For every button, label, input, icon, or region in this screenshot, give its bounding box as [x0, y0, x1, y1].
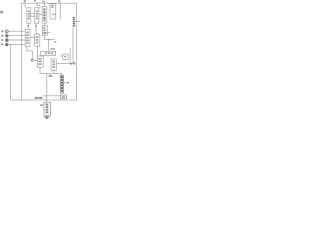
node pin2 label	[1, 35, 3, 37]
label top pin IN	[24, 0, 26, 2]
block E	[25, 30, 30, 47]
ground	[44, 116, 50, 118]
label pin VSET left edge	[0, 11, 3, 14]
block J	[62, 54, 68, 59]
wire I down	[53, 70, 55, 73]
label top pin 2	[34, 0, 36, 2]
wire L right tick	[47, 32, 50, 34]
wire feedback vertical	[72, 27, 74, 64]
terminal pin1	[5, 30, 8, 33]
wire W1 to M	[61, 73, 63, 75]
block A	[27, 8, 31, 23]
node D right dot	[55, 14, 56, 16]
block L	[42, 25, 47, 35]
node input circle	[31, 59, 33, 61]
wire A-B link2	[31, 15, 35, 17]
wire left drop	[9, 44, 11, 100]
node T junction	[48, 39, 50, 41]
label GND left	[35, 97, 38, 99]
wire junction to H	[47, 40, 49, 52]
wire B-C link	[39, 13, 42, 15]
block N	[44, 102, 51, 115]
wire A-B link1	[31, 12, 35, 14]
wire B to F	[35, 23, 37, 34]
label GND right	[61, 95, 67, 99]
wire W2 horizontal	[43, 95, 64, 97]
wire M right tick	[64, 82, 68, 84]
wire N to ground	[46, 115, 48, 117]
label top pin 4	[58, 0, 60, 2]
wire top pin 2	[37, 2, 40, 8]
wire pin bus	[6, 31, 8, 44]
wire right vertical	[69, 47, 71, 63]
node pin4 label	[1, 44, 3, 46]
wire top pin 4	[59, 2, 61, 20]
wire OUT pin	[75, 20, 80, 22]
wire bottom-left extension	[10, 99, 21, 101]
block D	[50, 4, 56, 19]
block M dark	[60, 75, 63, 93]
wire circle to G	[34, 59, 38, 61]
label N left tick	[40, 104, 43, 106]
wire F to G	[37, 46, 39, 56]
label arrow mark	[70, 63, 72, 65]
wire top pin 3	[43, 1, 45, 7]
label above H	[51, 48, 53, 50]
wire W1 horizontal	[40, 72, 62, 74]
wire A to E	[27, 23, 29, 29]
wire W3 horizontal	[56, 63, 73, 65]
wire C to L	[43, 23, 45, 25]
wire top pin IN	[24, 2, 26, 8]
wire pin2	[8, 35, 25, 37]
node pin1 label	[1, 30, 3, 32]
resistor R1 divider	[73, 17, 75, 18]
wire center down to N	[46, 73, 48, 102]
node pin3 label	[1, 39, 3, 41]
terminal pin3	[6, 39, 9, 42]
label near W3	[73, 62, 75, 65]
block C	[42, 7, 47, 23]
wire pin4	[8, 43, 25, 45]
block B	[35, 8, 39, 23]
terminal pin2	[6, 35, 9, 38]
wire J left stub	[60, 55, 62, 57]
wire E to F	[30, 36, 35, 38]
label wire end mark	[54, 41, 56, 42]
wire G down	[39, 67, 41, 73]
terminal pin4	[6, 43, 9, 46]
wire pin1	[8, 30, 25, 32]
label top pin 3	[42, 1, 44, 2]
label under W1	[49, 75, 53, 77]
IC boundary box	[22, 3, 77, 100]
block F	[35, 34, 40, 46]
node M tick dot	[67, 82, 69, 84]
block H	[41, 51, 56, 55]
wire L down elbow	[45, 35, 55, 40]
resistor R2 divider	[73, 23, 75, 24]
wire E down to node	[27, 46, 33, 59]
block I	[51, 59, 56, 70]
wire pin3	[8, 39, 25, 41]
block G	[37, 56, 43, 67]
